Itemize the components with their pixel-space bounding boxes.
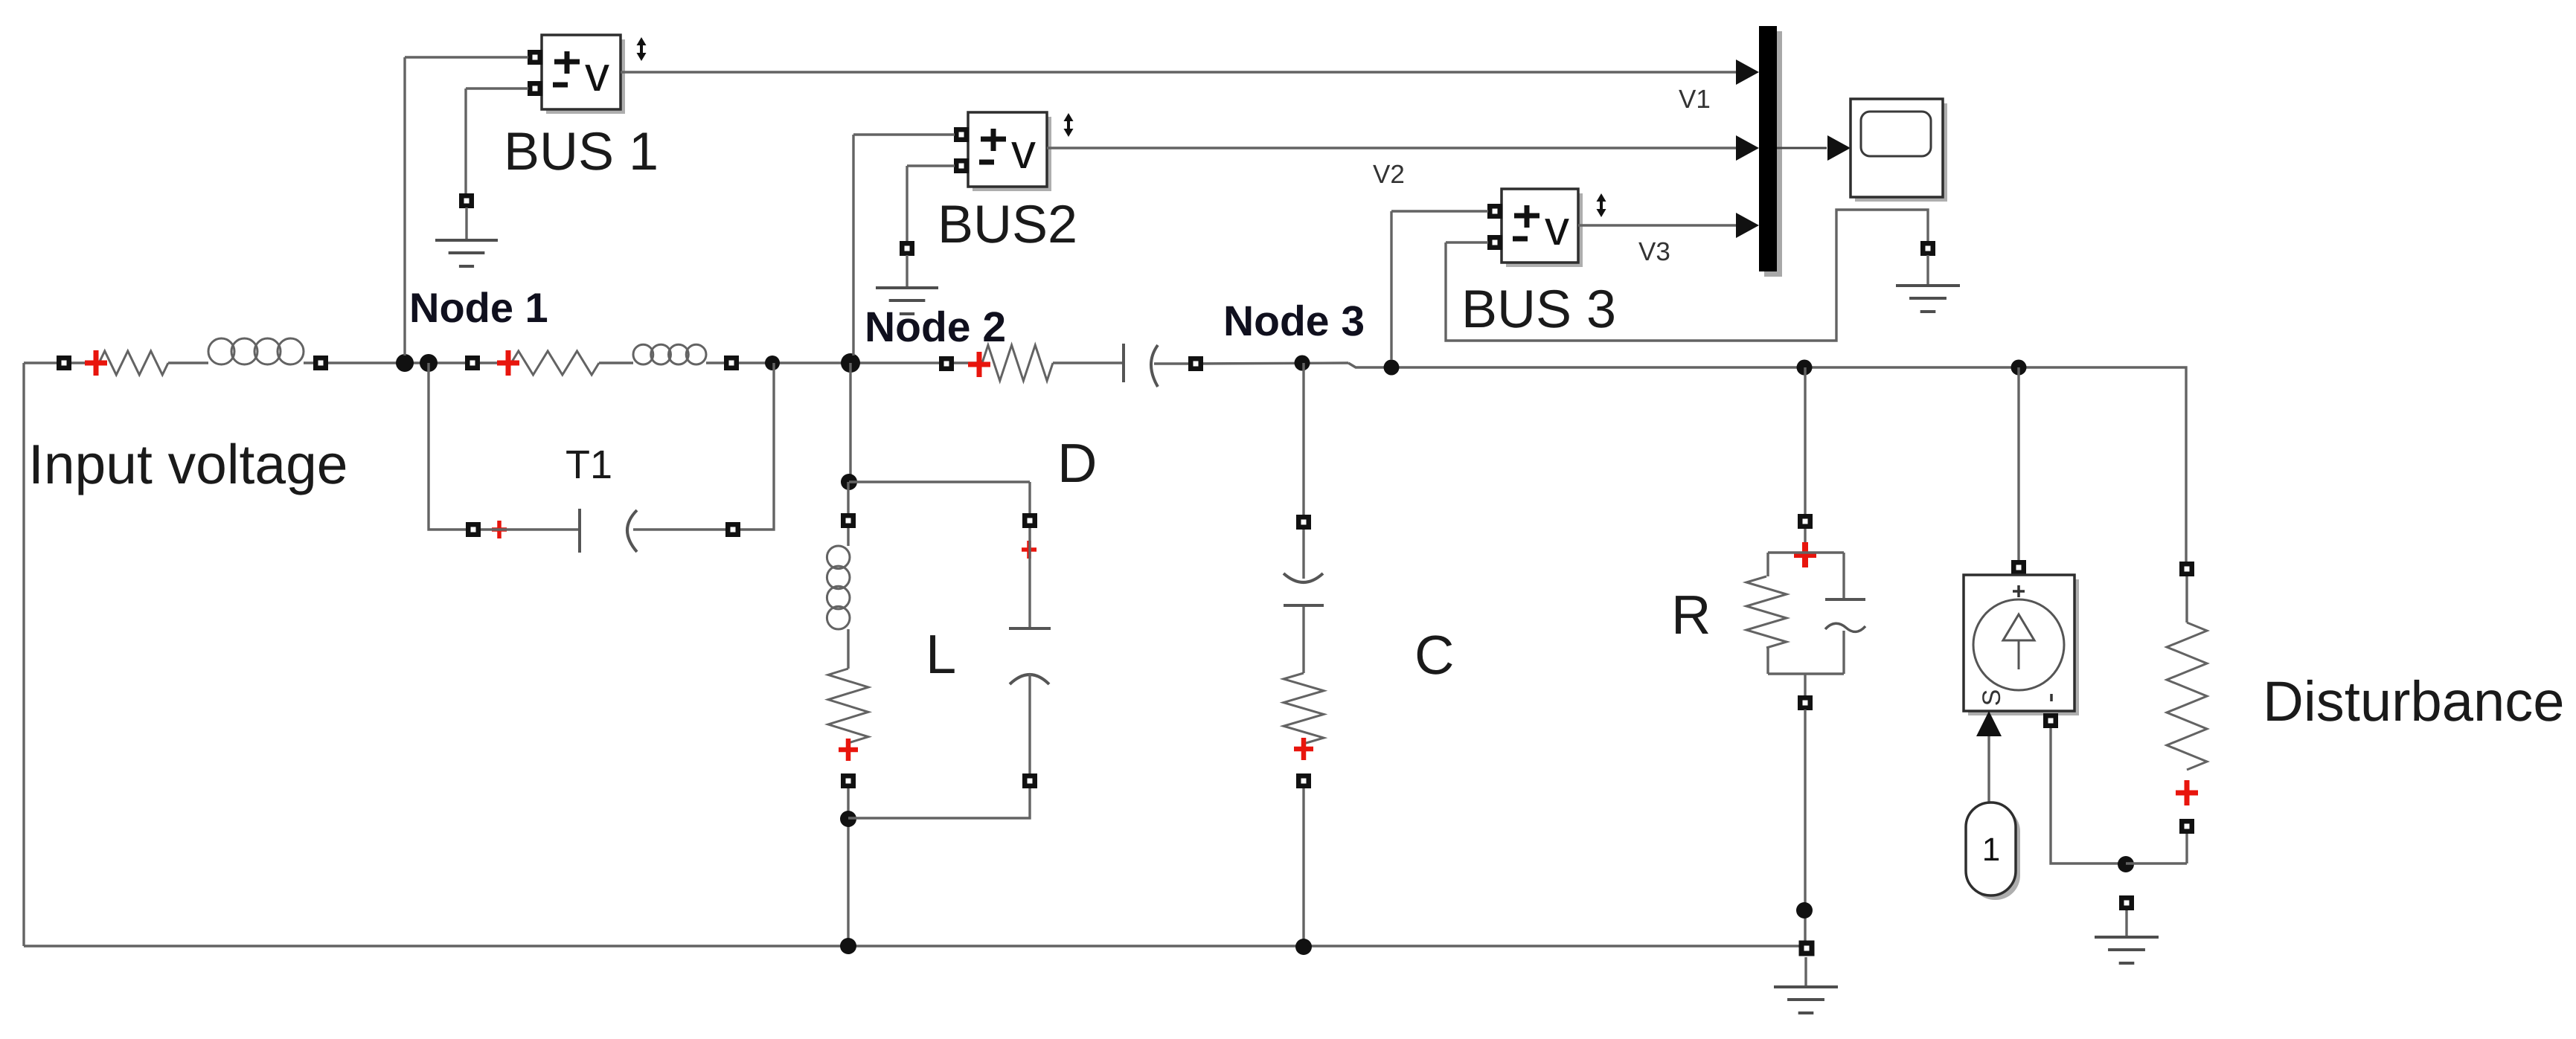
svg-text:v: v	[1011, 123, 1036, 178]
svg-text:T1: T1	[565, 443, 612, 487]
svg-text:BUS 1: BUS 1	[504, 122, 659, 181]
svg-text:Disturbance: Disturbance	[2263, 670, 2565, 733]
svg-text:Input voltage: Input voltage	[28, 433, 348, 495]
svg-text:L: L	[926, 623, 956, 685]
svg-text:Node 3: Node 3	[1223, 297, 1365, 345]
svg-text:D: D	[1057, 432, 1097, 494]
svg-text:Node 1: Node 1	[409, 284, 548, 331]
svg-text:v: v	[1545, 200, 1569, 255]
svg-text:v: v	[585, 46, 609, 101]
svg-text:BUS 3: BUS 3	[1461, 280, 1616, 339]
svg-text:BUS2: BUS2	[938, 195, 1077, 254]
svg-text:V1: V1	[1679, 85, 1711, 114]
svg-text:V2: V2	[1373, 160, 1405, 189]
svg-text:C: C	[1414, 624, 1454, 686]
svg-text:Node 2: Node 2	[865, 303, 1006, 351]
svg-text:V3: V3	[1638, 237, 1670, 266]
svg-text:1: 1	[1982, 831, 2000, 868]
svg-text:R: R	[1671, 584, 1711, 646]
